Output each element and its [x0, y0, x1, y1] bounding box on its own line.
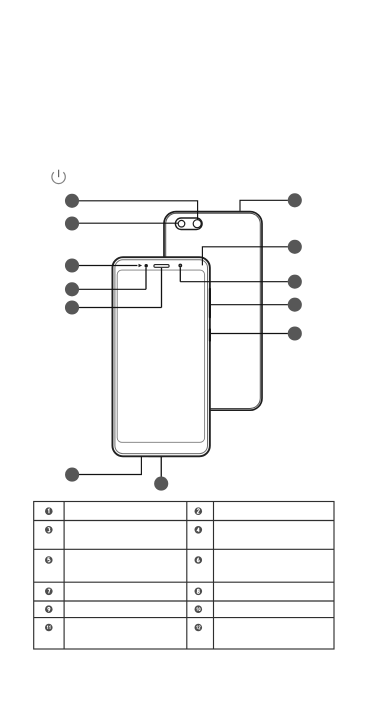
badge 5 — [45, 556, 53, 564]
callout L4 — [65, 282, 79, 296]
callout L6 — [65, 468, 79, 482]
badge 7 — [45, 588, 53, 596]
power icon — [52, 170, 65, 184]
callout R1 — [288, 193, 302, 207]
sensor dot — [179, 264, 182, 267]
badge 6 — [195, 556, 203, 564]
callout L2 — [65, 216, 79, 230]
wire L4 — [79, 288, 146, 290]
callout B7 — [154, 477, 168, 491]
wire R2 — [202, 247, 288, 266]
rear camera lens right — [193, 220, 201, 228]
table grid — [34, 502, 334, 650]
wire L1 — [79, 201, 198, 220]
rear camera lens left — [178, 220, 185, 227]
wire R3 — [180, 281, 288, 283]
callout L5 — [65, 300, 79, 314]
callout L1 — [65, 194, 79, 208]
callout L3 — [65, 258, 79, 272]
wire L6 — [78, 456, 141, 474]
wire R4 — [211, 304, 288, 306]
bottom edge detail — [149, 455, 164, 457]
badge 9 — [45, 605, 53, 613]
badge 11 — [45, 624, 53, 632]
badge 1 — [45, 507, 53, 515]
badge 8 — [195, 588, 203, 596]
badge 12 — [195, 624, 203, 632]
wire L3 with arrow — [79, 264, 142, 268]
callout R3 — [288, 275, 302, 289]
front camera dot — [145, 264, 148, 267]
callout R5 — [288, 326, 302, 340]
badge 2 — [195, 507, 203, 515]
display — [117, 270, 204, 442]
callout R2 — [288, 240, 302, 254]
back phone body — [164, 212, 262, 411]
volume button — [209, 288, 211, 319]
wire R1 — [240, 200, 288, 211]
wire L2 — [79, 222, 178, 224]
wire L5 — [79, 307, 162, 309]
badge 10 — [195, 605, 203, 613]
front phone body — [112, 257, 209, 456]
earpiece — [154, 265, 169, 268]
power button — [209, 328, 211, 342]
callout R4 — [288, 298, 302, 312]
badge 3 — [45, 526, 53, 534]
rear camera module — [175, 218, 202, 230]
wire R5 — [211, 333, 288, 335]
wire B7 — [160, 457, 162, 477]
badge 4 — [195, 526, 203, 534]
